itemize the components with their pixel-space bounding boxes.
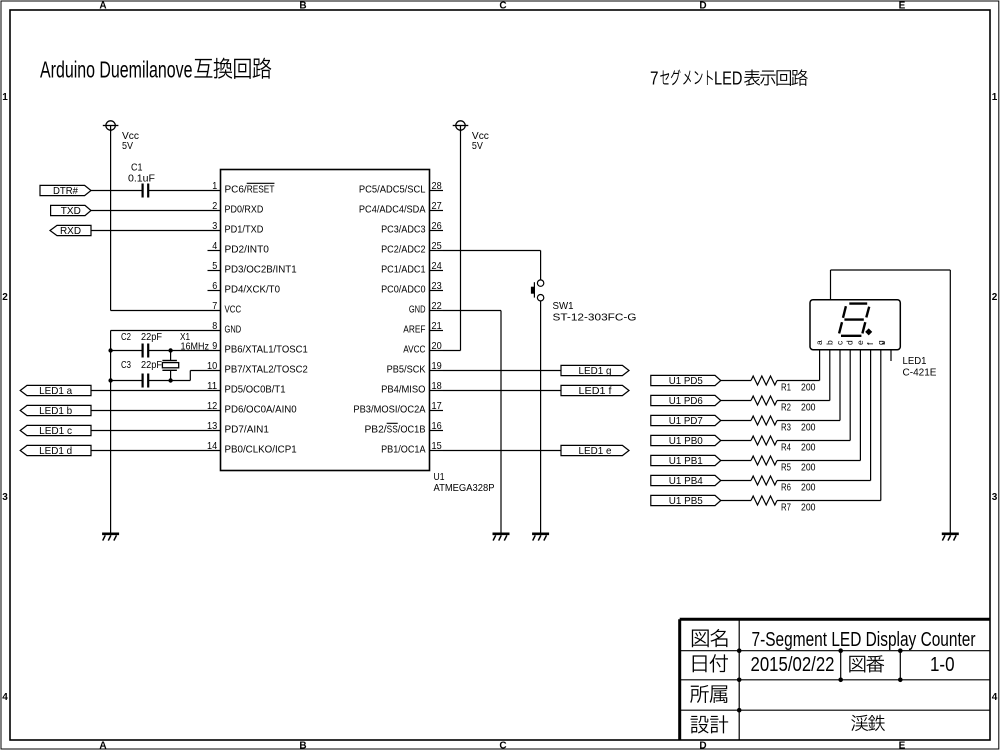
svg-text:PC3/ADC3: PC3/ADC3 <box>381 224 426 236</box>
svg-text:C: C <box>499 1 506 12</box>
svg-text:2: 2 <box>2 292 8 303</box>
svg-text:SW1: SW1 <box>553 300 574 312</box>
svg-text:3: 3 <box>992 492 998 503</box>
svg-text:SS: SS <box>387 424 398 436</box>
svg-text:AVCC: AVCC <box>403 344 426 356</box>
svg-text:D: D <box>699 740 706 750</box>
svg-text:4: 4 <box>2 692 8 703</box>
svg-text:9: 9 <box>212 340 217 352</box>
svg-text:LED1 e: LED1 e <box>579 445 612 457</box>
svg-text:R7: R7 <box>781 502 791 514</box>
svg-text:0.1uF: 0.1uF <box>128 173 155 185</box>
svg-text:PC5/ADC5/SCL: PC5/ADC5/SCL <box>359 184 426 196</box>
svg-text:U1 PD6: U1 PD6 <box>669 395 703 407</box>
svg-text:LED1 g: LED1 g <box>579 365 612 377</box>
svg-text:R4: R4 <box>781 442 791 454</box>
svg-text:LED1 a: LED1 a <box>39 385 72 397</box>
svg-text:Arduino Duemilanove: Arduino Duemilanove <box>40 57 193 83</box>
svg-text:C3: C3 <box>121 359 131 371</box>
svg-text:LED1 c: LED1 c <box>39 425 72 437</box>
svg-text:ST-12-303FC-G: ST-12-303FC-G <box>553 312 637 324</box>
svg-text:PB7/XTAL2/TOSC2: PB7/XTAL2/TOSC2 <box>225 364 308 376</box>
svg-text:C: C <box>499 740 506 750</box>
svg-text:D: D <box>699 1 706 12</box>
svg-text:PD3/OC2B/INT1: PD3/OC2B/INT1 <box>225 264 297 276</box>
svg-text:PB3/MOSI/OC2A: PB3/MOSI/OC2A <box>353 404 425 416</box>
svg-text:PC4/ADC4/SDA: PC4/ADC4/SDA <box>359 204 426 216</box>
svg-text:200: 200 <box>801 402 816 414</box>
svg-text:7: 7 <box>212 300 217 312</box>
svg-text:R6: R6 <box>781 482 791 494</box>
svg-text:13: 13 <box>207 420 217 432</box>
svg-text:200: 200 <box>801 482 816 494</box>
svg-text:14: 14 <box>207 440 217 452</box>
svg-text:PC2/ADC2: PC2/ADC2 <box>381 244 426 256</box>
svg-text:R3: R3 <box>781 422 791 434</box>
svg-text:1: 1 <box>2 92 8 103</box>
svg-text:VCC: VCC <box>225 304 242 316</box>
svg-text:E: E <box>899 1 906 12</box>
svg-text:R1: R1 <box>781 382 791 394</box>
svg-text:C-421E: C-421E <box>903 367 937 379</box>
svg-text:a: a <box>814 340 824 345</box>
svg-text:B: B <box>299 1 306 12</box>
svg-text:U1 PB0: U1 PB0 <box>669 435 703 447</box>
svg-text:7-Segment LED Display Counter: 7-Segment LED Display Counter <box>752 629 976 651</box>
svg-text:12: 12 <box>207 400 217 412</box>
svg-text:PD0/RXD: PD0/RXD <box>225 204 264 216</box>
svg-text:11: 11 <box>207 380 217 392</box>
svg-text:U1 PB4: U1 PB4 <box>669 475 703 487</box>
svg-text:C2: C2 <box>121 331 131 343</box>
svg-text:TXD: TXD <box>61 205 81 217</box>
svg-text:10: 10 <box>207 360 217 372</box>
svg-text:B: B <box>299 740 306 750</box>
svg-text:PD2/INT0: PD2/INT0 <box>225 244 270 256</box>
svg-text:GND: GND <box>409 304 426 316</box>
svg-text:PB0/CLKO/ICP1: PB0/CLKO/ICP1 <box>225 444 297 456</box>
svg-text:/OC1B: /OC1B <box>398 424 426 436</box>
svg-text:R2: R2 <box>781 402 791 414</box>
svg-text:PB1/OC1A: PB1/OC1A <box>381 444 425 456</box>
svg-text:PB2/: PB2/ <box>364 424 386 436</box>
svg-text:PD5/OC0B/T1: PD5/OC0B/T1 <box>225 384 286 396</box>
svg-text:LED1 b: LED1 b <box>39 405 72 417</box>
svg-text:GND: GND <box>225 324 242 336</box>
svg-text:LED1: LED1 <box>903 355 927 367</box>
svg-text:RXD: RXD <box>60 225 81 237</box>
svg-text:A: A <box>99 1 106 12</box>
svg-text:1: 1 <box>212 180 217 192</box>
svg-text:LED1 d: LED1 d <box>39 445 72 457</box>
svg-text:e: e <box>855 340 865 345</box>
svg-text:3: 3 <box>2 492 8 503</box>
svg-text:PB4/MISO: PB4/MISO <box>381 384 425 396</box>
svg-text:U1 PB1: U1 PB1 <box>669 455 703 467</box>
svg-text:200: 200 <box>801 442 816 454</box>
svg-text:RESET: RESET <box>247 184 275 196</box>
svg-text:200: 200 <box>801 462 816 474</box>
svg-text:PC0/ADC0: PC0/ADC0 <box>381 284 426 296</box>
svg-text:8: 8 <box>212 320 217 332</box>
svg-text:7: 7 <box>650 69 659 89</box>
svg-text:LED1 f: LED1 f <box>579 385 612 397</box>
svg-text:PC1/ADC1: PC1/ADC1 <box>381 264 426 276</box>
svg-text:200: 200 <box>801 502 816 514</box>
svg-text:2015/02/22: 2015/02/22 <box>751 654 835 676</box>
svg-text:d: d <box>845 340 855 345</box>
svg-text:3: 3 <box>212 220 217 232</box>
svg-text:PC6/: PC6/ <box>225 184 247 196</box>
svg-text:DTR#: DTR# <box>53 185 78 197</box>
svg-text:1-0: 1-0 <box>930 654 955 676</box>
svg-text:PD4/XCK/T0: PD4/XCK/T0 <box>225 284 281 296</box>
svg-text:PB6/XTAL1/TOSC1: PB6/XTAL1/TOSC1 <box>225 344 308 356</box>
svg-text:16MHz: 16MHz <box>181 341 210 353</box>
svg-text:ATMEGA328P: ATMEGA328P <box>434 482 495 494</box>
svg-text:PD6/OC0A/AIN0: PD6/OC0A/AIN0 <box>225 404 297 416</box>
svg-text:1: 1 <box>992 92 998 103</box>
svg-text:b: b <box>824 340 834 345</box>
svg-text:200: 200 <box>801 382 816 394</box>
svg-text:5V: 5V <box>122 140 133 152</box>
svg-text:22pF: 22pF <box>141 359 162 371</box>
svg-text:U1 PD7: U1 PD7 <box>669 415 703 427</box>
svg-text:A: A <box>99 740 106 750</box>
svg-text:R5: R5 <box>781 462 791 474</box>
svg-text:AREF: AREF <box>403 324 425 336</box>
svg-text:U1 PB5: U1 PB5 <box>669 495 703 507</box>
svg-text:U1 PD5: U1 PD5 <box>669 375 703 387</box>
svg-text:5V: 5V <box>472 140 483 152</box>
svg-text:200: 200 <box>801 422 816 434</box>
svg-text:2: 2 <box>992 292 998 303</box>
svg-text:E: E <box>899 740 906 750</box>
svg-text:LED: LED <box>714 69 742 89</box>
svg-text:PD7/AIN1: PD7/AIN1 <box>225 424 270 436</box>
svg-text:4: 4 <box>992 692 998 703</box>
svg-text:2: 2 <box>212 200 217 212</box>
svg-text:PB5/SCK: PB5/SCK <box>387 364 426 376</box>
svg-text:22pF: 22pF <box>141 331 162 343</box>
svg-text:PD1/TXD: PD1/TXD <box>225 224 264 236</box>
